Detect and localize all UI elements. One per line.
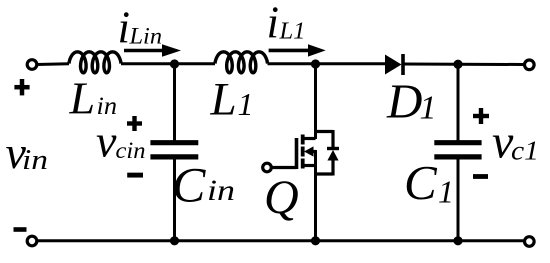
wire MOSFET source vertical [314,150,317,241]
wire MOSFET drain vertical [314,64,317,139]
wire top rail: Lin to L1 [121,62,215,65]
body-diode branch: bottom horizontal [316,172,334,175]
svg-text:c1: c1 [511,136,539,166]
inductor L1 [215,52,268,73]
svg-text:L: L [210,73,237,125]
wire Cin bottom vertical [173,159,176,241]
svg-text:L1: L1 [278,19,305,45]
wire top rail: terminal to Lin [37,62,69,66]
svg-text:D: D [386,74,422,129]
drain stub [303,137,316,140]
svg-text:Q: Q [264,171,299,224]
diode D1 [385,54,403,75]
channel dash top [301,135,305,145]
capacitor Cin [150,143,198,157]
inductor Lin [69,52,121,73]
wire C1 bottom vertical [457,159,460,241]
wire top rail: diode to right terminal [404,63,523,67]
gate wire [272,166,297,169]
current arrow iLin [124,44,181,57]
node after Lin [170,59,179,68]
transistor Q (MOSFET with body diode) [263,130,333,176]
body-diode branch: right vertical lower [331,160,334,176]
wire bottom rail [37,239,524,242]
gate bar [295,138,299,169]
plus sign C1 [473,108,489,124]
terminal top-left [27,60,37,70]
svg-text:i: i [118,3,131,53]
svg-text:C: C [172,157,206,213]
svg-text:1: 1 [238,86,254,122]
body line [309,150,316,153]
svg-text:cin: cin [116,138,146,163]
body diode of Q [327,149,339,161]
minus sign C1 [473,174,488,179]
plus sign left [14,79,29,95]
source stub [303,164,316,167]
svg-text:C: C [404,155,438,210]
capacitor C1 [434,143,481,157]
node C1 bottom [453,236,462,245]
channel dash middle [301,147,305,157]
current arrow iL1 [269,44,326,56]
svg-text:1: 1 [438,173,454,209]
minus sign Cin [127,173,143,178]
svg-text:i: i [267,0,280,48]
svg-text:1: 1 [420,90,437,127]
wire C1 top vertical [457,64,460,141]
node Cin bottom [170,236,179,245]
terminal top-right [525,60,535,70]
wire top rail: L1 to diode D1 [268,62,386,65]
body-diode branch: right vertical upper [331,130,334,148]
gate terminal circle [263,163,272,172]
node after L1 (drain) [311,59,320,68]
channel dash bottom [301,159,305,169]
svg-text:v: v [96,116,117,167]
node after D1 [453,60,462,69]
body arrow of Q [304,146,314,156]
terminal bottom-left [27,236,37,246]
svg-text:in: in [22,144,48,176]
svg-text:Lin: Lin [128,24,162,49]
wire Cin top vertical [173,64,176,141]
plus sign Cin [127,116,142,131]
minus sign left [14,227,27,232]
terminal bottom-right [525,237,535,247]
svg-text:L: L [69,73,96,124]
svg-text:in: in [207,174,235,207]
body-diode branch: top horizontal [316,130,334,133]
node source bottom [311,236,320,245]
